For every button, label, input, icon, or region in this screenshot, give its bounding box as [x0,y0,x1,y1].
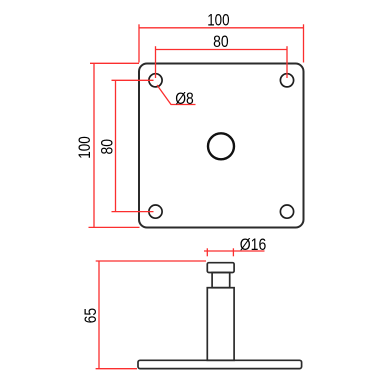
extension tick left of dia16 [206,248,208,256]
extension line top of 80 left [112,79,154,81]
hole bottom-right [280,205,293,218]
extension line bottom of 65 [96,368,137,370]
dimension line 80 (top hole spacing) [156,49,288,51]
dimension line 100 (top width) [139,27,304,29]
plate outline (top view) [139,64,304,228]
leader line for hole diameter [157,85,196,105]
extension line top of 65 [96,260,206,262]
center hole [208,133,234,159]
extension tick right of dia16 [232,248,234,256]
svg-text:Ø16: Ø16 [240,236,267,254]
side view: base plate [138,360,302,368]
extension line left of 100 top [138,24,140,62]
extension line top of 100 left [90,62,139,64]
dimension line diameter 16 [204,250,265,252]
side view: post [207,288,234,361]
hole top-right [280,74,293,87]
svg-text:Ø8: Ø8 [175,90,194,108]
dimension line 100 (left height) [93,63,95,227]
hole top-left [149,74,162,87]
svg-text:80: 80 [213,33,229,51]
extension line right of 80 top [286,46,288,78]
dimension line 80 (left hole spacing) [115,80,117,211]
svg-text:100: 100 [76,136,94,159]
extension line right of 100 top [303,24,305,62]
extension line bottom of 100 left [89,226,140,228]
svg-text:80: 80 [99,139,117,155]
svg-text:100: 100 [207,12,229,30]
side view: spigot cap [207,263,234,273]
side view: spigot neck [212,273,230,288]
hole bottom-left [149,205,162,218]
dimension line 65 (side height) [98,261,100,369]
extension line left of 80 top [155,46,157,78]
svg-text:65: 65 [82,308,100,324]
extension line bottom of 80 left [112,211,154,213]
